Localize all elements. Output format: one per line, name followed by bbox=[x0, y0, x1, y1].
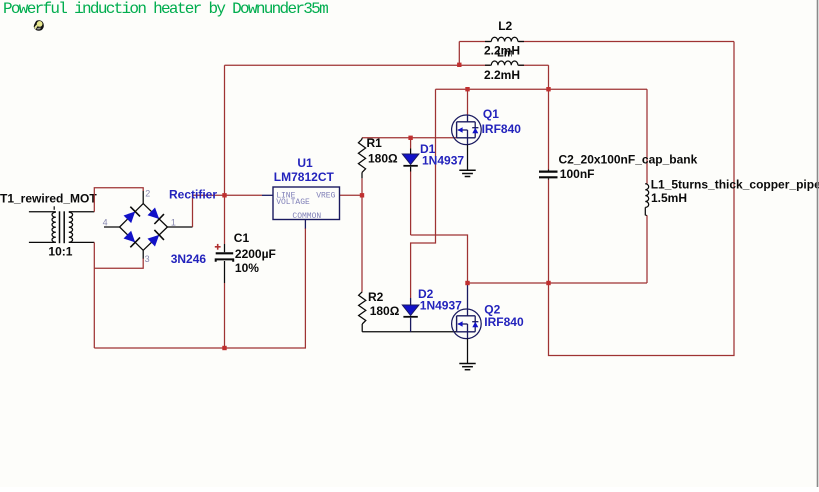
svg-text:IRF840: IRF840 bbox=[484, 315, 524, 329]
svg-text:Rectifier: Rectifier bbox=[169, 187, 217, 201]
svg-text:4: 4 bbox=[103, 218, 108, 228]
svg-text:C1: C1 bbox=[234, 231, 250, 245]
svg-text:1N4937: 1N4937 bbox=[422, 154, 464, 168]
svg-text:VREG: VREG bbox=[316, 192, 335, 201]
svg-text:10:1: 10:1 bbox=[48, 245, 72, 259]
svg-text:T1_rewired_MOT: T1_rewired_MOT bbox=[0, 192, 97, 206]
svg-text:C2_20x100nF_cap_bank: C2_20x100nF_cap_bank bbox=[559, 152, 698, 166]
svg-text:U1: U1 bbox=[297, 156, 313, 170]
svg-text:180Ω: 180Ω bbox=[368, 152, 398, 166]
svg-text:1N4937: 1N4937 bbox=[420, 299, 462, 313]
svg-text:LM7812CT: LM7812CT bbox=[274, 170, 335, 184]
svg-text:3N246: 3N246 bbox=[171, 252, 207, 266]
svg-text:L2: L2 bbox=[498, 19, 512, 33]
svg-text:Q1: Q1 bbox=[483, 107, 499, 121]
svg-text:2.2mH: 2.2mH bbox=[484, 44, 520, 58]
svg-text:VOLTAGE: VOLTAGE bbox=[276, 198, 310, 207]
svg-text:100nF: 100nF bbox=[560, 167, 595, 181]
svg-text:R2: R2 bbox=[368, 290, 384, 304]
svg-text:Powerful induction heater by D: Powerful induction heater by Downunder35… bbox=[3, 0, 328, 18]
svg-text:R1: R1 bbox=[367, 136, 383, 150]
svg-text:2: 2 bbox=[145, 188, 150, 198]
svg-text:3: 3 bbox=[145, 254, 150, 264]
svg-text:2200µF: 2200µF bbox=[235, 247, 276, 261]
svg-text:IRF840: IRF840 bbox=[482, 122, 522, 136]
svg-text:180Ω: 180Ω bbox=[370, 304, 400, 318]
svg-text:1.5mH: 1.5mH bbox=[651, 191, 687, 205]
svg-text:10%: 10% bbox=[235, 261, 259, 275]
svg-text:L1_5turns_thick_copper_pipe: L1_5turns_thick_copper_pipe bbox=[651, 178, 819, 192]
svg-text:2.2mH: 2.2mH bbox=[484, 68, 520, 82]
svg-text:COMMON: COMMON bbox=[292, 212, 321, 221]
svg-text:1: 1 bbox=[171, 218, 176, 228]
